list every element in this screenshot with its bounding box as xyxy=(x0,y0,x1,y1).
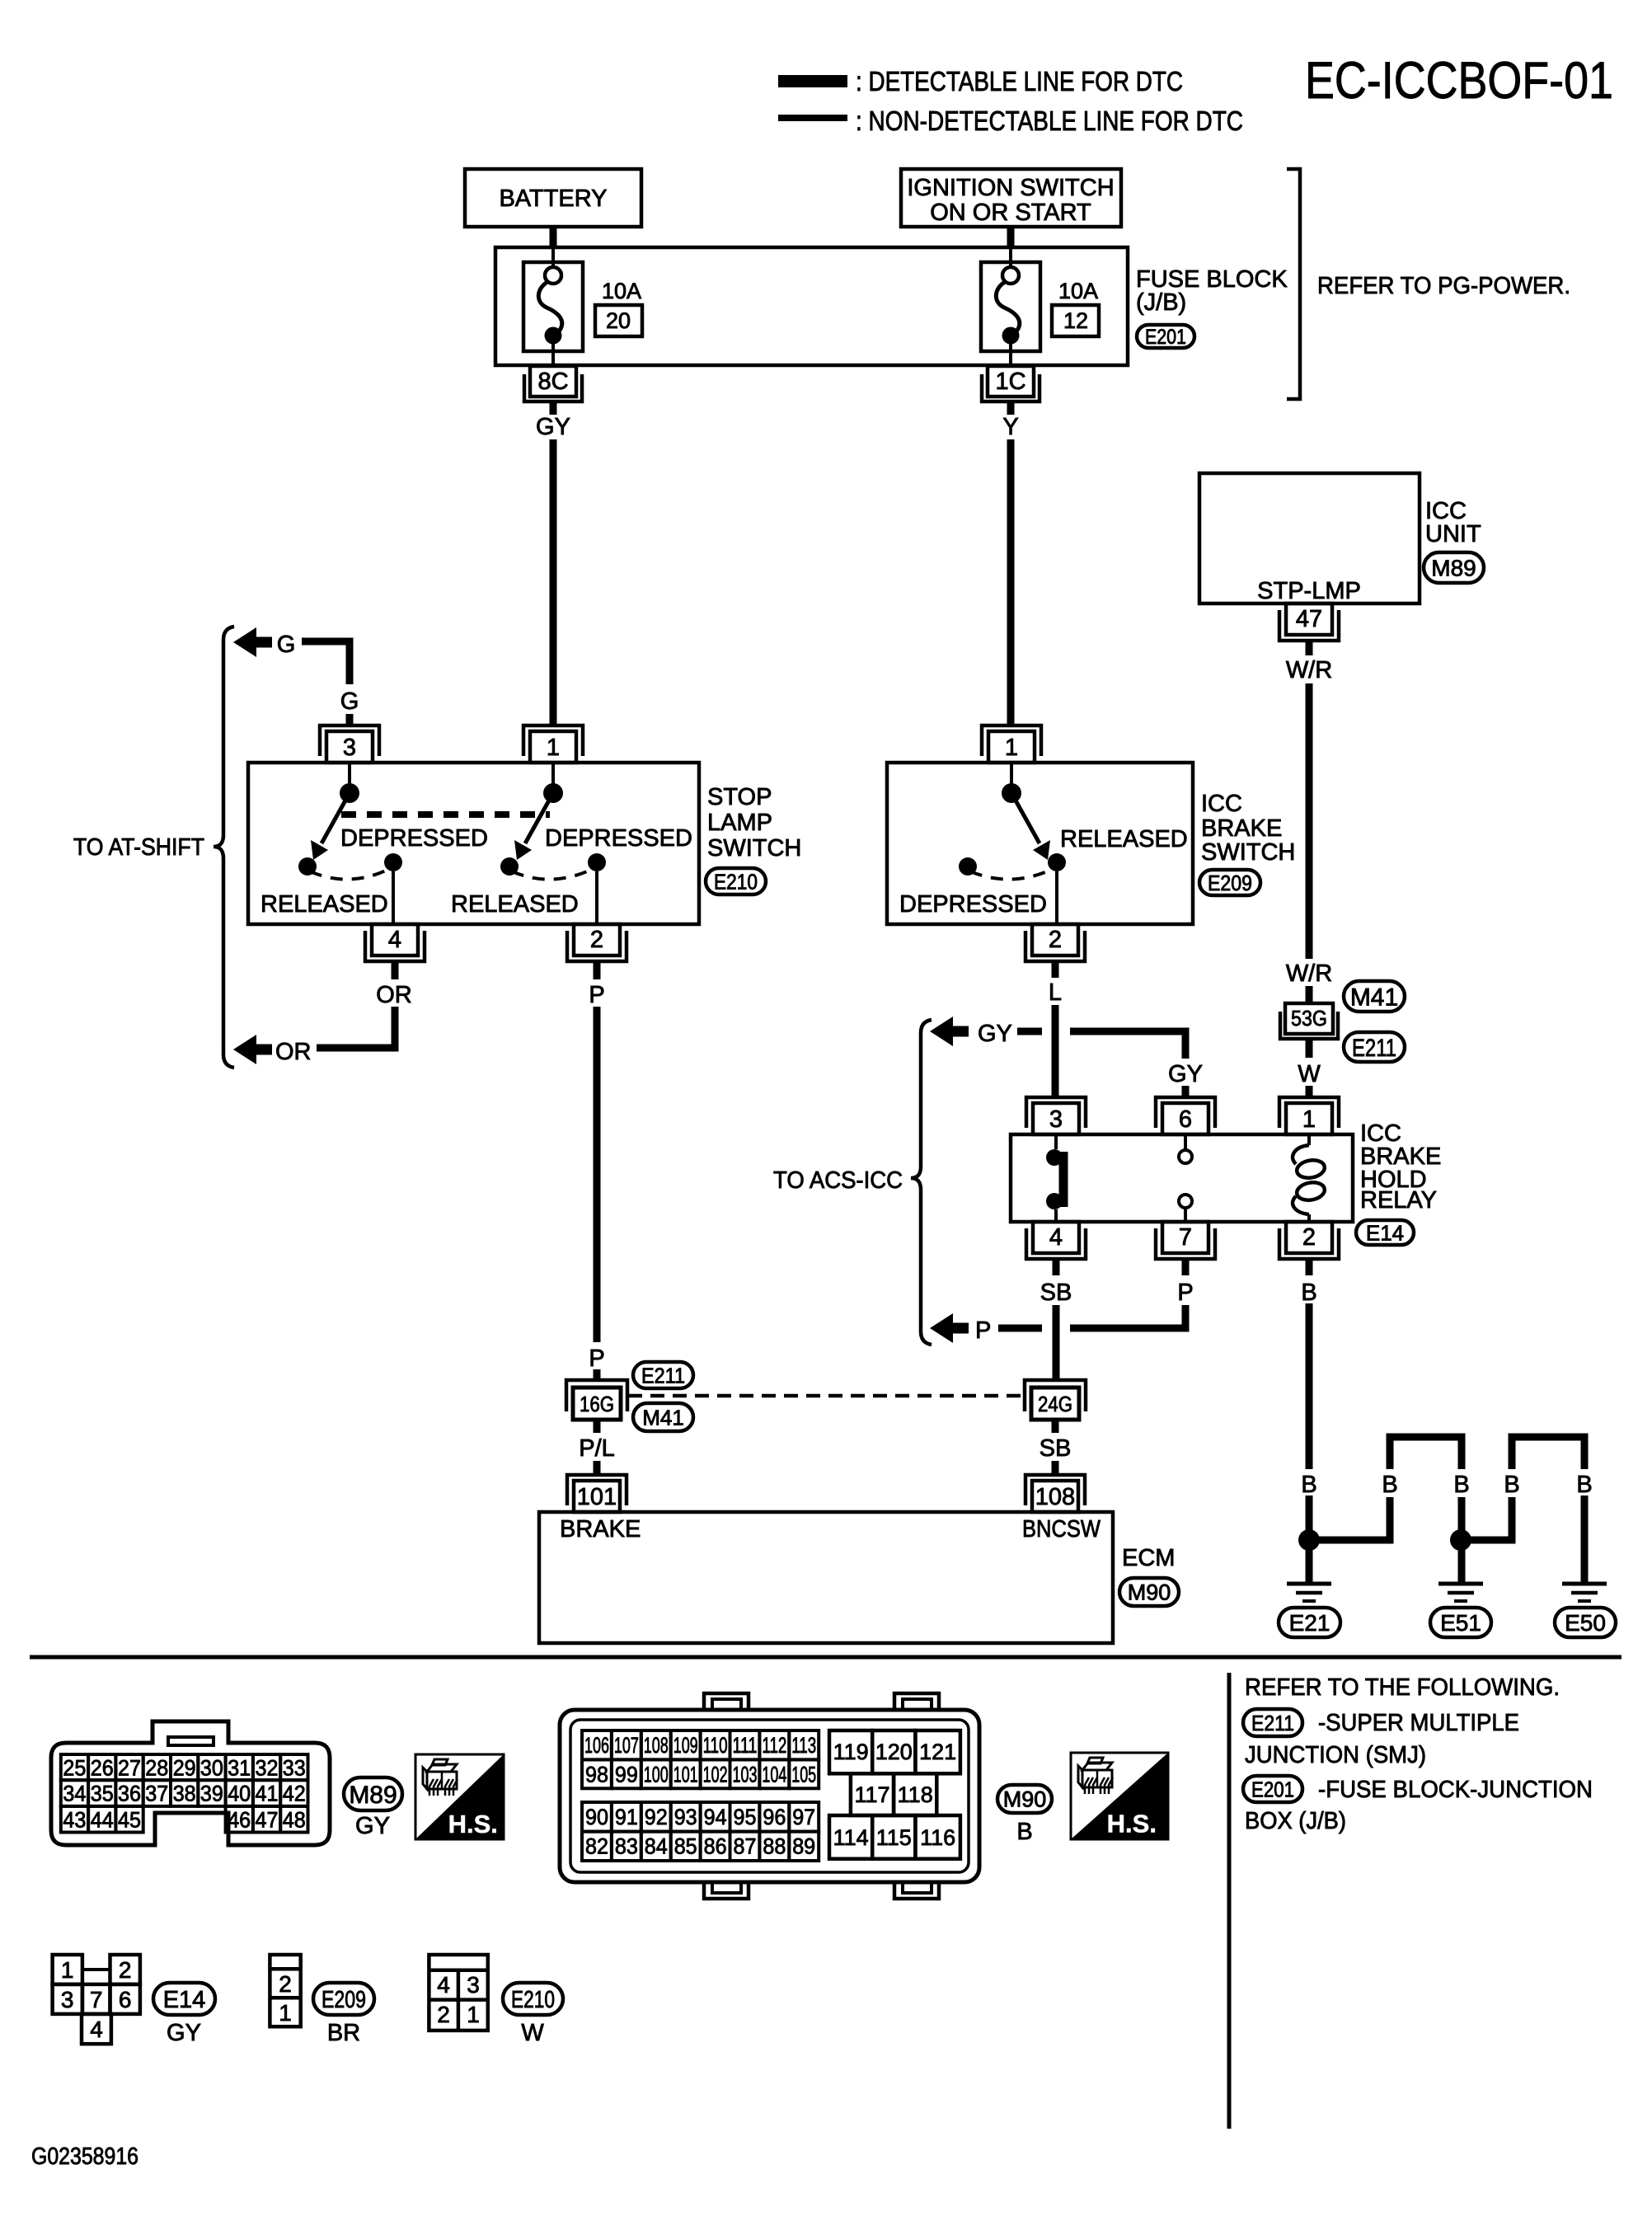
svg-text:M89: M89 xyxy=(349,1782,397,1809)
svg-text:100: 100 xyxy=(644,1762,669,1787)
connector E210 oval xyxy=(706,868,766,895)
svg-text:118: 118 xyxy=(898,1782,933,1807)
connector relay pin 7 xyxy=(1156,1228,1215,1259)
svg-text:DEPRESSED: DEPRESSED xyxy=(340,825,488,852)
connector relay pin 1 xyxy=(1279,1097,1339,1128)
svg-text:7: 7 xyxy=(90,1987,103,2012)
svg-text:BNCSW: BNCSW xyxy=(1022,1516,1101,1542)
connector E209 oval xyxy=(1199,870,1260,895)
separator line xyxy=(30,1655,1621,1660)
svg-text:E211: E211 xyxy=(641,1363,685,1388)
connector face M90 oval xyxy=(997,1785,1052,1813)
icc switch arm arrow xyxy=(1011,793,1040,843)
switch2 wire to pin2 xyxy=(595,871,598,924)
svg-text:99: 99 xyxy=(615,1762,638,1787)
svg-text:40: 40 xyxy=(228,1782,251,1806)
svg-text:SB: SB xyxy=(1040,1280,1072,1306)
svg-text:E14: E14 xyxy=(163,1987,206,2013)
svg-text:87: 87 xyxy=(734,1834,757,1859)
svg-text:20: 20 xyxy=(606,308,631,333)
svg-text:M90: M90 xyxy=(1128,1580,1171,1605)
svg-text:26: 26 xyxy=(91,1756,114,1781)
svg-text:115: 115 xyxy=(876,1825,912,1850)
switch1 depressed dot xyxy=(298,857,317,876)
connector face E14 xyxy=(53,1955,82,1984)
switch2 arm arrow xyxy=(525,793,553,843)
svg-text:DEPRESSED: DEPRESSED xyxy=(545,825,692,852)
svg-text:83: 83 xyxy=(615,1834,638,1859)
switch1 arm arrow xyxy=(321,793,350,843)
connector pin 4 xyxy=(365,931,425,961)
relay coil xyxy=(1307,1134,1311,1145)
svg-text:SB: SB xyxy=(1040,1435,1072,1462)
svg-text:30: 30 xyxy=(200,1756,223,1781)
svg-text:P: P xyxy=(975,1317,991,1344)
svg-text:RELEASED: RELEASED xyxy=(260,891,388,918)
wire ignition to fuse block xyxy=(1007,227,1015,248)
svg-text:43: 43 xyxy=(63,1807,86,1832)
svg-text:2: 2 xyxy=(590,927,603,953)
svg-text:RELEASED: RELEASED xyxy=(451,891,579,918)
wire L icc pin2 down xyxy=(1052,961,1059,978)
svg-text:1C: 1C xyxy=(995,369,1025,395)
svg-text:97: 97 xyxy=(792,1805,815,1829)
svg-text:47: 47 xyxy=(256,1807,279,1832)
switch1 common dot xyxy=(340,783,359,803)
svg-text:GY: GY xyxy=(167,2020,201,2046)
svg-text:105: 105 xyxy=(791,1762,816,1787)
svg-text:STP-LMP: STP-LMP xyxy=(1257,578,1361,604)
svg-text:38: 38 xyxy=(173,1782,196,1806)
svg-text:E209: E209 xyxy=(1208,871,1252,895)
svg-text:92: 92 xyxy=(645,1805,668,1829)
svg-text:36: 36 xyxy=(118,1782,141,1806)
svg-text:B: B xyxy=(1301,1280,1316,1306)
relay contact dot top xyxy=(1046,1149,1063,1166)
connector icc pin 1 xyxy=(982,725,1041,756)
svg-text:DEPRESSED: DEPRESSED xyxy=(899,891,1047,918)
svg-text:H.S.: H.S. xyxy=(448,1810,498,1838)
connector relay pin 3 xyxy=(1026,1097,1086,1128)
connector M41 oval at 16G xyxy=(633,1403,693,1431)
svg-text:1: 1 xyxy=(547,735,560,761)
svg-text:27: 27 xyxy=(118,1756,141,1781)
svg-text:BRAKE: BRAKE xyxy=(560,1516,641,1542)
svg-text:GY: GY xyxy=(536,414,570,440)
switch link dashed xyxy=(341,811,550,818)
svg-text:108: 108 xyxy=(644,1733,669,1758)
connector 1C xyxy=(988,366,1034,397)
connector face M89 shell xyxy=(51,1721,330,1845)
svg-text:L: L xyxy=(1049,979,1062,1006)
svg-text:G: G xyxy=(340,688,359,715)
svg-text:46: 46 xyxy=(228,1807,251,1832)
wire B relay pin2 down xyxy=(1306,1259,1313,1275)
svg-text:42: 42 xyxy=(283,1782,306,1806)
hs logo 1 xyxy=(415,1754,504,1839)
svg-text:1: 1 xyxy=(1302,1106,1316,1133)
svg-text:B: B xyxy=(1382,1472,1397,1498)
connector face E209 xyxy=(270,1955,300,2026)
icc switch common dot xyxy=(1002,783,1021,803)
svg-text:E211: E211 xyxy=(1352,1035,1396,1062)
svg-text:W/R: W/R xyxy=(1286,960,1332,987)
legend non-detectable line sample xyxy=(778,115,847,121)
svg-text:106: 106 xyxy=(584,1733,609,1758)
arrow to at-shift OR xyxy=(233,1035,256,1064)
svg-text:B: B xyxy=(1576,1472,1592,1498)
svg-text:116: 116 xyxy=(920,1825,955,1850)
connector 24G xyxy=(1025,1380,1086,1411)
svg-text:101: 101 xyxy=(577,1484,617,1510)
to at-shift brace xyxy=(214,627,234,1068)
smj dashed link xyxy=(628,1394,1025,1398)
svg-text:RELEASED: RELEASED xyxy=(1060,826,1188,852)
svg-text:24G: 24G xyxy=(1038,1392,1072,1416)
svg-text:28: 28 xyxy=(145,1756,168,1781)
wire P relay pin7 down xyxy=(1182,1259,1190,1275)
svg-text:6: 6 xyxy=(1179,1106,1192,1133)
svg-text:B: B xyxy=(1301,1472,1316,1498)
icc switch released dot xyxy=(1048,853,1066,871)
svg-text:4: 4 xyxy=(388,927,401,953)
connector E21 oval xyxy=(1279,1608,1340,1637)
svg-text:TO ACS-ICC: TO ACS-ICC xyxy=(773,1167,903,1194)
svg-text:OR: OR xyxy=(376,982,412,1008)
svg-text:E210: E210 xyxy=(511,1987,555,2013)
svg-text:P: P xyxy=(589,1345,604,1372)
svg-text:82: 82 xyxy=(585,1834,608,1859)
svg-text:44: 44 xyxy=(91,1807,114,1832)
wire OR from pin 4 xyxy=(317,1007,395,1048)
svg-text:117: 117 xyxy=(854,1782,889,1807)
connector face M89 pin grid xyxy=(61,1754,88,1780)
connector face M90 left pin grid xyxy=(582,1730,612,1759)
svg-text:35: 35 xyxy=(91,1782,114,1806)
connector E51 oval xyxy=(1430,1608,1491,1637)
icc switch common stub xyxy=(1010,763,1013,784)
connector 16G xyxy=(566,1380,627,1411)
svg-text:37: 37 xyxy=(145,1782,168,1806)
legend detectable line sample xyxy=(778,75,847,87)
svg-text:B: B xyxy=(1016,1819,1032,1845)
svg-text:-SUPER MULTIPLE: -SUPER MULTIPLE xyxy=(1318,1710,1519,1736)
svg-text:E201: E201 xyxy=(1145,326,1186,349)
svg-text:101: 101 xyxy=(673,1762,698,1787)
svg-text:SWITCH: SWITCH xyxy=(707,835,801,862)
connector pin 2 xyxy=(567,931,627,961)
switch1 common stub xyxy=(348,763,351,784)
switch1 released dot xyxy=(384,853,402,871)
svg-text:ECM: ECM xyxy=(1122,1545,1175,1571)
wire G to stop lamp pin 3 xyxy=(302,641,350,684)
connector M90 oval xyxy=(1119,1578,1179,1606)
connector icc pin 2 xyxy=(1025,931,1085,961)
ignition switch box xyxy=(901,169,1121,227)
svg-text:(J/B): (J/B) xyxy=(1136,289,1186,316)
svg-text:E209: E209 xyxy=(321,1987,366,2013)
arrow to acs-icc P xyxy=(930,1313,953,1343)
svg-text:M41: M41 xyxy=(642,1405,684,1430)
svg-text:4: 4 xyxy=(90,2017,103,2042)
switch1 wire to pin4 xyxy=(392,871,395,924)
svg-text:REFER TO THE FOLLOWING.: REFER TO THE FOLLOWING. xyxy=(1245,1674,1560,1701)
connector face E209 oval xyxy=(313,1983,374,2015)
svg-text:3: 3 xyxy=(1049,1106,1063,1133)
ecm box xyxy=(539,1512,1113,1643)
switch2 common dot xyxy=(543,783,563,803)
relay terminal 7 stub xyxy=(1184,1208,1187,1222)
bottom divider line xyxy=(1227,1673,1232,2129)
svg-text:BOX (J/B): BOX (J/B) xyxy=(1245,1808,1346,1834)
arrow to acs-icc GY xyxy=(930,1017,953,1046)
svg-text:96: 96 xyxy=(763,1805,786,1829)
svg-text:2: 2 xyxy=(279,1971,292,1997)
connector M41 oval at 53G xyxy=(1344,981,1405,1012)
svg-text:SWITCH: SWITCH xyxy=(1201,839,1295,866)
svg-text:109: 109 xyxy=(673,1733,698,1758)
svg-text:1: 1 xyxy=(61,1957,74,1983)
wire stub G pin3 xyxy=(346,714,354,727)
svg-text:85: 85 xyxy=(674,1834,697,1859)
svg-text:W: W xyxy=(1298,1061,1321,1087)
stop lamp switch box xyxy=(248,763,699,924)
svg-text:84: 84 xyxy=(645,1834,668,1859)
hs logo 2 xyxy=(1071,1753,1168,1839)
svg-text:31: 31 xyxy=(228,1756,251,1781)
svg-text:2: 2 xyxy=(1049,927,1062,953)
svg-text:16G: 16G xyxy=(580,1392,614,1416)
connector E201 refer oval xyxy=(1243,1776,1302,1802)
svg-text:Y: Y xyxy=(1002,414,1018,440)
svg-text:29: 29 xyxy=(173,1756,196,1781)
relay contact dot bottom xyxy=(1046,1193,1063,1209)
wire P/L 16G to ECM xyxy=(594,1420,601,1433)
connector relay pin 4 xyxy=(1026,1228,1086,1259)
svg-text:2: 2 xyxy=(437,2002,450,2027)
relay terminal 6 circle xyxy=(1179,1150,1192,1163)
svg-text:7: 7 xyxy=(1179,1224,1192,1251)
connector M89 oval xyxy=(1424,552,1484,583)
connector face M90 right pin grid xyxy=(829,1730,872,1773)
svg-text:102: 102 xyxy=(703,1762,728,1787)
svg-text:53G: 53G xyxy=(1291,1006,1327,1031)
switch2 depressed dot xyxy=(500,857,519,876)
svg-text:B: B xyxy=(1504,1472,1519,1498)
svg-text:: NON-DETECTABLE LINE FOR DTC: : NON-DETECTABLE LINE FOR DTC xyxy=(856,106,1243,136)
svg-text:91: 91 xyxy=(615,1805,638,1829)
svg-text:39: 39 xyxy=(200,1782,223,1806)
svg-text:H.S.: H.S. xyxy=(1107,1810,1157,1838)
svg-text:112: 112 xyxy=(762,1733,786,1758)
wire GY arrow segment xyxy=(1017,1028,1042,1035)
svg-text:E50: E50 xyxy=(1565,1610,1606,1636)
svg-text:94: 94 xyxy=(704,1805,727,1829)
svg-text:88: 88 xyxy=(763,1834,786,1859)
relay contact bar xyxy=(1059,1152,1068,1207)
svg-text:1: 1 xyxy=(1005,735,1018,761)
svg-text:UNIT: UNIT xyxy=(1425,521,1481,547)
svg-text:93: 93 xyxy=(674,1805,697,1829)
svg-text:113: 113 xyxy=(791,1733,816,1758)
icc switch depressed dot xyxy=(959,857,977,876)
fuse 10A 20 xyxy=(523,262,583,351)
icc unit box xyxy=(1199,473,1420,603)
svg-text:10A: 10A xyxy=(1058,279,1098,303)
to acs-icc brace xyxy=(911,1020,932,1345)
connector E50 oval xyxy=(1555,1608,1616,1637)
icc brake switch box xyxy=(887,763,1193,924)
svg-text:89: 89 xyxy=(792,1834,815,1859)
svg-text:6: 6 xyxy=(119,1987,132,2012)
wire SB 24G to ECM xyxy=(1052,1420,1059,1433)
svg-text:8C: 8C xyxy=(537,369,568,395)
connector 53G xyxy=(1285,1003,1333,1034)
svg-text:ON OR START: ON OR START xyxy=(930,200,1091,226)
wire B elbow 1 xyxy=(1319,1497,1390,1540)
svg-text:114: 114 xyxy=(833,1825,869,1850)
connector face E14 oval xyxy=(153,1983,215,2015)
connector E211 oval at 16G xyxy=(633,1362,693,1388)
junction dot E21 xyxy=(1298,1529,1320,1551)
svg-text:E21: E21 xyxy=(1289,1610,1331,1636)
svg-text:25: 25 xyxy=(63,1756,86,1781)
bracket refer pg-power xyxy=(1287,169,1300,399)
ground jumper loop 1 xyxy=(1390,1437,1462,1469)
svg-text:121: 121 xyxy=(919,1740,956,1764)
svg-text:2: 2 xyxy=(1302,1224,1316,1251)
svg-text:P: P xyxy=(1177,1280,1193,1306)
svg-text:86: 86 xyxy=(704,1834,727,1859)
svg-text:10A: 10A xyxy=(602,279,641,303)
svg-text:M90: M90 xyxy=(1003,1787,1047,1812)
wire B to E50 ground xyxy=(1581,1496,1589,1583)
svg-text:90: 90 xyxy=(585,1805,608,1829)
connector E211 oval at 53G xyxy=(1344,1032,1405,1062)
svg-text:REFER TO PG-POWER.: REFER TO PG-POWER. xyxy=(1317,273,1570,299)
svg-text:98: 98 xyxy=(585,1762,608,1787)
svg-text:M89: M89 xyxy=(1431,556,1476,581)
svg-text:107: 107 xyxy=(614,1733,639,1758)
svg-text:E210: E210 xyxy=(714,869,758,894)
svg-text:3: 3 xyxy=(343,735,356,761)
svg-text:M41: M41 xyxy=(1350,984,1398,1011)
wire W 53G to relay pin 1 xyxy=(1306,1039,1313,1058)
wire stub to 53G xyxy=(1306,986,1313,1003)
ground jumper loop 2 xyxy=(1512,1437,1584,1469)
battery box xyxy=(465,169,641,227)
svg-text:W: W xyxy=(521,2020,544,2046)
svg-text:1: 1 xyxy=(279,2000,292,2026)
relay terminal 7 circle xyxy=(1179,1195,1192,1208)
svg-text:GY: GY xyxy=(1168,1061,1203,1087)
icc brake hold relay box xyxy=(1011,1134,1353,1222)
svg-text:119: 119 xyxy=(833,1740,869,1764)
svg-text:104: 104 xyxy=(762,1762,786,1787)
wire B to E21 ground xyxy=(1306,1496,1313,1583)
fuse 10A 12 xyxy=(981,262,1040,351)
svg-text:E201: E201 xyxy=(1251,1777,1294,1801)
svg-text:95: 95 xyxy=(734,1805,757,1829)
wire P stop lamp pin2 to 16G xyxy=(594,961,601,979)
svg-text:BATTERY: BATTERY xyxy=(499,185,607,212)
svg-text:47: 47 xyxy=(1296,606,1322,632)
icc switch wire to pin2 xyxy=(1055,871,1058,924)
svg-text:111: 111 xyxy=(733,1733,758,1758)
svg-text:JUNCTION (SMJ): JUNCTION (SMJ) xyxy=(1245,1742,1426,1768)
svg-text:33: 33 xyxy=(283,1756,306,1781)
connector relay pin 2 xyxy=(1279,1228,1339,1259)
svg-text:3: 3 xyxy=(467,1972,480,1998)
svg-text:-FUSE BLOCK-JUNCTION: -FUSE BLOCK-JUNCTION xyxy=(1318,1777,1593,1803)
icc switch released arc xyxy=(970,868,1054,880)
svg-text:EC-ICCBOF-01: EC-ICCBOF-01 xyxy=(1305,52,1613,110)
svg-text:STOP: STOP xyxy=(707,784,772,810)
wire B to E51 ground xyxy=(1458,1497,1466,1583)
svg-text:OR: OR xyxy=(275,1039,312,1065)
svg-text:E51: E51 xyxy=(1440,1610,1481,1636)
svg-text:ICC: ICC xyxy=(1201,791,1242,817)
svg-text:3: 3 xyxy=(61,1987,74,2012)
svg-text:P/L: P/L xyxy=(579,1435,615,1462)
connector E211 refer oval xyxy=(1243,1709,1302,1736)
svg-text:4: 4 xyxy=(437,1972,450,1998)
svg-text:GY: GY xyxy=(978,1021,1012,1047)
wire GY to relay pin 6 xyxy=(1070,1031,1185,1059)
svg-text:E14: E14 xyxy=(1366,1220,1404,1245)
svg-text:E211: E211 xyxy=(1251,1711,1294,1735)
relay contact stubs xyxy=(1054,1134,1058,1149)
connector 8C xyxy=(530,366,576,397)
connector pin 108 xyxy=(1025,1475,1085,1505)
switch2 common stub xyxy=(551,763,555,784)
wire B elbow 2 xyxy=(1471,1497,1512,1540)
connector face M90 shell xyxy=(560,1710,979,1882)
svg-text:108: 108 xyxy=(1035,1484,1075,1510)
svg-text:32: 32 xyxy=(256,1756,279,1781)
svg-text:12: 12 xyxy=(1063,308,1088,333)
connector face E210 oval xyxy=(503,1983,563,2015)
svg-text:41: 41 xyxy=(256,1782,279,1806)
svg-text:120: 120 xyxy=(875,1740,913,1764)
svg-text:P: P xyxy=(589,982,604,1008)
switch1 released arc xyxy=(310,868,391,880)
connector relay pin 6 xyxy=(1156,1097,1215,1128)
junction dot E51 xyxy=(1450,1529,1471,1551)
wire GY fuse to stop lamp switch xyxy=(550,401,557,415)
svg-text:G02358916: G02358916 xyxy=(31,2144,138,2170)
arrow to at-shift G xyxy=(233,627,256,657)
svg-text:34: 34 xyxy=(63,1782,86,1806)
wire Y fuse to icc brake switch xyxy=(1007,401,1015,415)
svg-text:LAMP: LAMP xyxy=(707,810,772,836)
connector face M89 oval xyxy=(344,1777,402,1810)
svg-text:2: 2 xyxy=(119,1957,132,1983)
svg-text:RELAY: RELAY xyxy=(1360,1187,1437,1214)
ground E21 xyxy=(1287,1582,1331,1586)
connector pin 1 xyxy=(523,725,583,756)
connector E201 oval xyxy=(1137,325,1194,348)
svg-text:TO AT-SHIFT: TO AT-SHIFT xyxy=(73,834,204,861)
svg-text:4: 4 xyxy=(1049,1224,1063,1251)
ground E50 xyxy=(1562,1582,1607,1586)
wire battery to fuse block xyxy=(550,227,557,248)
svg-text:G: G xyxy=(277,632,296,658)
svg-text:IGNITION SWITCH: IGNITION SWITCH xyxy=(907,175,1114,201)
svg-text:103: 103 xyxy=(733,1762,758,1787)
svg-text:BRAKE: BRAKE xyxy=(1201,815,1282,842)
fuse block box xyxy=(495,247,1128,365)
